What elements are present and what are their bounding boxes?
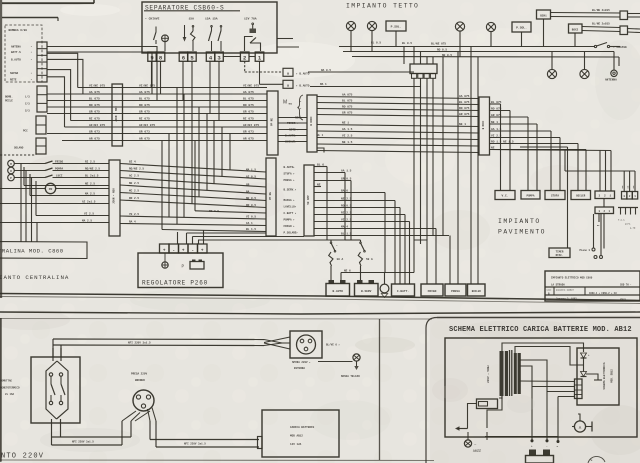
svg-text:RO/NE 2.5: RO/NE 2.5 (129, 166, 144, 170)
staircase extra vertical (168, 134, 170, 218)
svg-text:RI 075: RI 075 (243, 117, 254, 120)
arrow fuse 15A (184, 25, 186, 38)
cable up to presa socket (121, 421, 123, 445)
svg-text:POMPA: POMPA (526, 195, 534, 198)
svg-text:PP RE: PP RE (269, 192, 272, 200)
svg-text:VI 2.5: VI 2.5 (84, 212, 94, 215)
svg-text:50 AMP: 50 AMP (307, 195, 310, 205)
svg-text:RI 075: RI 075 (89, 117, 100, 120)
dashed box gas locker (5, 25, 42, 82)
cable breaker down (51, 419, 53, 441)
box REGOLATORE P260 (138, 253, 223, 288)
svg-text:RO 075: RO 075 (139, 104, 150, 107)
svg-text:BL 2x1.5: BL 2x1.5 (85, 174, 99, 177)
riser from terminal 4 (209, 61, 211, 114)
svg-text:JOUN • N50: JOUN • N50 (113, 188, 116, 204)
switch pompa (14, 170, 45, 172)
link terminals 3-2 (224, 56, 241, 58)
breaker poles (49, 373, 52, 376)
svg-text:RI 2.5: RI 2.5 (85, 160, 95, 163)
svg-text:B.SERV.▸: B.SERV.▸ (284, 189, 297, 192)
svg-text:FRIGO: FRIGO (55, 160, 63, 163)
long verticals to PRESA BOILER (449, 236, 451, 285)
meter symbol regolatore (162, 262, 168, 268)
svg-text:NE: NE (317, 183, 321, 186)
wire MA 1 from relay b (310, 86, 421, 88)
svg-text:GR 075: GR 075 (491, 114, 502, 117)
entry circle 220V (464, 440, 471, 447)
svg-text:15A 15A: 15A 15A (205, 18, 218, 21)
svg-text:V.C.: V.C. (502, 195, 509, 198)
wire terminal 1 to relay b (259, 61, 261, 84)
svg-text:RO 0.5: RO 0.5 (341, 204, 352, 207)
riser from terminal 9 (151, 61, 153, 88)
svg-text:BA: BA (246, 191, 250, 194)
svg-text:BL 1: BL 1 (317, 134, 324, 137)
terminal 2 (240, 52, 249, 61)
harness rows strip F to strip G (317, 97, 479, 99)
svg-text:P.SOL.: P.SOL. (391, 26, 402, 29)
meter symbol (162, 35, 169, 42)
svg-text:POMPA ▸: POMPA ▸ (284, 219, 296, 222)
riser from terminal 5 (191, 61, 193, 107)
input circle 1 (8, 160, 15, 167)
svg-text:RA 4: RA 4 (129, 220, 136, 223)
svg-text:BL 075: BL 075 (342, 99, 353, 102)
fuse 30A battery auto (329, 252, 333, 266)
relay coil 12V (250, 29, 257, 34)
svg-text:BL 6: BL 6 (317, 163, 324, 166)
svg-text:MA 2.5: MA 2.5 (85, 192, 95, 195)
arc bottom right (588, 456, 605, 463)
wire massa down (384, 193, 386, 273)
svg-text:PP NE: PP NE (271, 118, 274, 126)
svg-text:BI 4: BI 4 (129, 160, 136, 163)
wire row VI25 (36, 215, 109, 217)
plug right 2 (620, 26, 628, 35)
svg-text:PRESA 220V: PRESA 220V (131, 373, 148, 376)
svg-text:BOMB.: BOMB. (5, 96, 13, 99)
svg-text:AA 075: AA 075 (139, 91, 150, 94)
wire FRIGO left pin (414, 240, 427, 284)
svg-text:AR 075: AR 075 (89, 137, 100, 140)
svg-text:BL 075: BL 075 (139, 97, 150, 100)
fuse box charger (477, 399, 498, 409)
switch luci (14, 177, 45, 179)
svg-text:B ROOF: B ROOF (310, 116, 313, 126)
svg-text:RI 075: RI 075 (139, 117, 150, 120)
svg-text:• CHIAVE: • CHIAVE (145, 18, 160, 21)
pin box 3-2-1 right (595, 191, 615, 199)
drop to roof lamp 5 (551, 52, 553, 70)
svg-text:▸ B.AUTO: ▸ B.AUTO (296, 84, 310, 87)
box CENTRALINA MOD C860 (0, 242, 87, 259)
svg-text:BL 075: BL 075 (243, 97, 254, 100)
roof lamp 5 (547, 69, 556, 78)
key switch roof (594, 45, 596, 47)
wire row NE25 (24, 185, 109, 187)
svg-text:RO/NE 2.5: RO/NE 2.5 (85, 166, 100, 170)
svg-text:BL 075: BL 075 (89, 97, 100, 100)
chassis ground bottom (353, 354, 360, 361)
jog below strip F (317, 148, 324, 153)
svg-text:CENTRALINA MOD. C860: CENTRALINA MOD. C860 (0, 248, 64, 255)
svg-text:B.AUTO: B.AUTO (11, 59, 21, 62)
svg-text:▸ B.AUTO: ▸ B.AUTO (296, 72, 310, 75)
svg-text:NE 0.5: NE 0.5 (246, 197, 256, 200)
roof lamp 3 (455, 22, 464, 31)
hline regolatore to batteries (198, 239, 345, 241)
svg-text:AA 1.5: AA 1.5 (342, 128, 353, 131)
svg-text:NFI 220V 3x1.5: NFI 220V 3x1.5 (184, 443, 206, 446)
svg-text:NE 1: NE 1 (491, 121, 498, 124)
svg-text:LA STRADA: LA STRADA (551, 284, 565, 287)
wire RA 05 from relay a (308, 71, 414, 73)
riser from terminal 8 (160, 61, 162, 94)
svg-text:IMPIANTO: IMPIANTO (498, 218, 541, 225)
transformer secondary (514, 353, 517, 394)
box BOX2 roof (569, 24, 583, 33)
svg-text:Document Number: Document Number (556, 289, 575, 292)
svg-text:RO 075: RO 075 (342, 105, 353, 108)
svg-text:SPINA 220V ▸: SPINA 220V ▸ (292, 361, 311, 364)
breaker lens outline (46, 361, 57, 419)
svg-text:S/3: S/3 (25, 109, 30, 113)
relay contact loop (245, 37, 253, 52)
box SEPARATORE CSB60-S (142, 2, 277, 53)
svg-text:12V 70A: 12V 70A (244, 18, 257, 21)
svg-text:RO 2.5: RO 2.5 (129, 197, 139, 200)
svg-text:LAVELLO▸: LAVELLO▸ (284, 206, 297, 209)
svg-text:IMPIANTO 220V: IMPIANTO 220V (0, 453, 44, 461)
switch blade 3 (220, 27, 222, 31)
drop to roof lamp 6 (584, 52, 586, 70)
wire J1-2 (47, 52, 152, 94)
wire row AZ2x15 (0, 203, 109, 205)
wire pair BOX1 to plug (551, 12, 621, 15)
rows right of strip G to floor boxes (490, 103, 501, 105)
svg-text:NE 1: NE 1 (342, 121, 349, 124)
svg-text:PAVIMENTO: PAVIMENTO (498, 229, 546, 236)
svg-text:VI/NE 075: VI/NE 075 (243, 83, 259, 87)
svg-text:RO 0.5: RO 0.5 (209, 210, 219, 213)
svg-text:A.75: A.75 (630, 227, 636, 230)
svg-text:AZ 2x1.5: AZ 2x1.5 (82, 200, 96, 203)
rows right of strip E (314, 166, 327, 168)
svg-text:AZ 0.5: AZ 0.5 (246, 176, 256, 179)
svg-text:FRIGO ▸: FRIGO ▸ (284, 225, 296, 228)
svg-text:15A: 15A (189, 18, 195, 21)
comb connector far right (618, 207, 638, 209)
svg-text:AA 075: AA 075 (342, 93, 353, 96)
vertical to timer (567, 147, 569, 248)
wires below roof connector (413, 78, 415, 240)
terminal block separatore (148, 52, 156, 61)
svg-text:ANTENNA: ANTENNA (605, 79, 617, 82)
rows strip C to strip D sloped (120, 164, 266, 173)
diode D1 (581, 353, 587, 358)
svg-text:BOILER: BOILER (576, 195, 586, 198)
svg-text:BL/NE 2x035: BL/NE 2x035 (592, 8, 610, 12)
battery B.SERV (355, 284, 379, 297)
box BOILER mid (571, 191, 591, 200)
svg-text:IMPIANTO TETTO: IMPIANTO TETTO (346, 3, 419, 10)
svg-text:PCC: PCC (23, 130, 28, 133)
svg-text:IMPIANTO ELETTRICO MOD C860: IMPIANTO ELETTRICO MOD C860 (551, 276, 593, 279)
svg-text:RISC.: RISC. (556, 254, 564, 257)
svg-text:B.AUTO: B.AUTO (332, 290, 343, 293)
riser from terminal 3 (218, 61, 220, 121)
svg-text:RO 0.5: RO 0.5 (246, 204, 256, 207)
wire AA15 down (344, 173, 346, 241)
switch blade 4 (211, 27, 213, 31)
wire NE6 ground link (340, 273, 342, 281)
link terminals 2-1 (249, 56, 255, 58)
cable presa to charger (150, 439, 259, 441)
divider line 1 (0, 294, 640, 301)
plug right 1 (620, 11, 628, 20)
svg-text:RO 1.5 NE 1.5: RO 1.5 NE 1.5 (491, 140, 514, 143)
wires above roof connector (413, 47, 415, 65)
svg-text:GR 075: GR 075 (459, 113, 470, 116)
squares far right 321 (622, 192, 627, 200)
svg-text:GR 073: GR 073 (139, 130, 150, 133)
svg-text:AA 075: AA 075 (243, 91, 254, 94)
connector strip E (304, 165, 314, 236)
svg-text:STUFA: STUFA (551, 195, 559, 198)
wire row MA25 (30, 195, 109, 197)
svg-text:MA 1: MA 1 (320, 83, 327, 86)
svg-text:GR 073: GR 073 (243, 130, 254, 133)
connector column J2 (37, 86, 47, 112)
connector strip A (112, 84, 123, 146)
svg-text:MGNETOTERMICO: MGNETOTERMICO (0, 387, 20, 390)
svg-text:NFI 220V 3x1.5: NFI 220V 3x1.5 (128, 341, 151, 344)
fuse 50A battery serv (358, 252, 362, 266)
svg-text:BL 1.5: BL 1.5 (246, 228, 256, 231)
svg-text:RO 075: RO 075 (243, 104, 254, 107)
roof bus B (343, 51, 614, 53)
transformer core (509, 350, 511, 396)
wire transformer bottom to fuse (501, 396, 503, 399)
svg-text:VI 2.5: VI 2.5 (491, 134, 502, 137)
svg-text:STUFA ▸: STUFA ▸ (284, 173, 296, 176)
svg-text:a: a (287, 72, 289, 76)
svg-text:AA 075: AA 075 (459, 95, 470, 98)
svg-text:RA 0.5: RA 0.5 (321, 69, 331, 72)
svg-text:RETE: RETE (10, 79, 17, 82)
svg-text:RO 0.5: RO 0.5 (437, 49, 447, 52)
title block frame (545, 271, 640, 301)
divider line 2 (0, 312, 640, 314)
svg-text:2x 16A: 2x 16A (5, 393, 15, 396)
wires strip B to strip F (278, 117, 307, 119)
svg-text:BL/VE 6 ▸: BL/VE 6 ▸ (326, 343, 340, 347)
svg-text:POMPA: POMPA (55, 167, 63, 170)
strip D bottom row (162, 230, 266, 232)
battery icon regolatore (190, 262, 204, 270)
relay box a (283, 68, 293, 76)
svg-text:BRUNER: BRUNER (135, 379, 145, 382)
svg-text:RO 075: RO 075 (491, 107, 502, 110)
svg-text:MA 1.5: MA 1.5 (246, 169, 256, 172)
box TIMER RISC (549, 248, 570, 258)
connector PCC (36, 116, 46, 134)
svg-text:M: M (283, 100, 287, 106)
svg-text:BL 0.5: BL 0.5 (402, 42, 412, 45)
roof connector block (410, 64, 437, 74)
svg-text:VI 2.5: VI 2.5 (342, 134, 353, 137)
svg-text:NE 1.5: NE 1.5 (342, 141, 353, 144)
page corner mark top (2, 2, 94, 4)
connector strip C (109, 160, 120, 236)
svg-text:SOLANO: SOLANO (14, 147, 24, 150)
input circle 2 (8, 167, 15, 174)
connector strip F (307, 95, 317, 152)
svg-text:MA 2.5: MA 2.5 (82, 219, 92, 222)
svg-text:VI/NE 075: VI/NE 075 (89, 83, 105, 87)
svg-text:NE 1: NE 1 (459, 123, 466, 126)
svg-text:NE 2.5: NE 2.5 (341, 197, 352, 200)
wire B.AUTO feed (326, 167, 328, 241)
box STUFA mid (545, 191, 565, 200)
dashed wire bottom of gas box (0, 154, 36, 156)
roof P.SOL box 2 (512, 22, 531, 32)
svg-text:C860-1 + C860-2 + C8: C860-1 + C860-2 + C8 (589, 292, 617, 295)
svg-text:C.BATT ▸: C.BATT ▸ (284, 212, 297, 215)
svg-text:GR 073: GR 073 (89, 130, 100, 133)
svg-text:AC 2.5: AC 2.5 (129, 174, 139, 177)
box BOX1 roof (537, 10, 551, 19)
ammeter (574, 421, 585, 432)
svg-text:eo: eo (289, 103, 293, 106)
wire J1-6 (47, 77, 65, 127)
svg-text:50 A: 50 A (366, 258, 373, 261)
presa 220V socket circle (133, 390, 154, 411)
connector strip G (479, 97, 490, 155)
short row RO 05 (195, 211, 266, 213)
svg-text:MC 2.5: MC 2.5 (129, 189, 139, 192)
chassis ground symbol (380, 284, 389, 293)
terminal row regolatore (160, 244, 170, 253)
svg-text:PRESA: PRESA (451, 290, 460, 293)
hline above battery charger (485, 436, 558, 438)
staircase wires onto mid rows (229, 134, 231, 170)
antenna socket (611, 70, 617, 76)
harness rows left bundle (78, 87, 267, 89)
roof lamp 6 (580, 69, 589, 78)
svg-text:220V: 220V (472, 448, 481, 452)
svg-text:AA 1.5: AA 1.5 (491, 128, 502, 131)
photo edge bottom section (0, 318, 432, 321)
svg-text:GR 075: GR 075 (243, 110, 254, 113)
svg-text:NE 0.5: NE 0.5 (442, 54, 452, 57)
wires to C.BATT (394, 201, 396, 285)
cable top horizontal NFI 220V (53, 338, 264, 341)
box FRIGO floor (421, 284, 443, 296)
input circle 3 (8, 174, 15, 181)
svg-text:VI 0.5: VI 0.5 (246, 216, 256, 219)
svg-text:P.SOLARE▸: P.SOLARE▸ (284, 232, 299, 235)
svg-text:IMPIANTO CENTRALINA: IMPIANTO CENTRALINA (0, 274, 69, 281)
svg-text:Size: Size (547, 289, 553, 292)
wire to FRIGO right pin (435, 229, 437, 285)
cable fan to socket box (264, 340, 282, 344)
connector strip D (266, 158, 276, 236)
svg-text:BL 075: BL 075 (491, 101, 502, 104)
svg-text:COD 7H -: COD 7H - (620, 284, 632, 287)
divider line 1b (0, 297, 640, 304)
wires below pin box lower (598, 214, 600, 223)
box schema elettronica (577, 348, 619, 405)
left verticals down (20, 164, 22, 243)
svg-text:GR: GR (246, 184, 250, 187)
svg-text:PRESA ▸: PRESA ▸ (284, 179, 296, 182)
svg-text:BOX1: BOX1 (540, 14, 547, 17)
connection dots charger (531, 440, 533, 442)
drop to antenna (613, 52, 615, 71)
breaker cable entry (52, 348, 54, 361)
svg-text:JOUN • N50: JOUN • N50 (115, 106, 118, 122)
svg-text:NE 2.5: NE 2.5 (85, 182, 95, 185)
diode link wires (583, 358, 585, 372)
battery B.AUTO (326, 284, 350, 297)
wire row MA25b (0, 222, 109, 224)
svg-text:AR 075: AR 075 (243, 137, 254, 140)
switch frigo (14, 163, 45, 165)
svg-text:GR 075: GR 075 (342, 111, 353, 114)
svg-text:BOX2: BOX2 (572, 28, 579, 31)
roof lamp 1 (346, 21, 355, 30)
svg-text:BATT.S: BATT.S (11, 51, 21, 54)
relay box b (283, 80, 293, 88)
switch blade battery serv (360, 240, 362, 242)
wire fuse to entry (468, 404, 477, 429)
connector solar (36, 138, 46, 154)
stub wires separatore right (277, 38, 293, 40)
roof bus C (352, 56, 619, 59)
terminal 1 (255, 52, 264, 61)
wire J1-4 (47, 59, 83, 94)
svg-text:SEPAR: SEPAR (10, 72, 18, 75)
wire GR05 down (350, 181, 352, 241)
cable bottom horizontal 1 (52, 436, 132, 438)
switch blade battery auto (330, 240, 332, 242)
svg-text:CA 1: CA 1 (246, 222, 253, 225)
wires to pin box (599, 151, 601, 192)
motor PR (45, 183, 55, 193)
svg-text:NE 2.5: NE 2.5 (129, 182, 139, 185)
svg-text:AZ/BI 075: AZ/BI 075 (139, 123, 155, 127)
svg-text:SCHEMA ELETTRONICA: SCHEMA ELETTRONICA (603, 362, 606, 390)
page corner mark inner (2, 17, 58, 19)
svg-text:30 A: 30 A (337, 258, 344, 261)
svg-text:CARICA BATTERIE: CARICA BATTERIE (290, 426, 315, 429)
box POMPA mid (521, 191, 540, 200)
svg-text:PR: PR (49, 188, 53, 191)
wire BL/VE to chassis (318, 361, 353, 363)
svg-text:PEILE: PEILE (5, 100, 13, 103)
svg-text:TIMER: TIMER (556, 250, 564, 253)
wire J1-3 (47, 53, 78, 87)
svg-text:AZ/BI 075: AZ/BI 075 (243, 123, 259, 127)
wire pair BOX2 to plug (582, 27, 620, 28)
svg-text:P.C.S: P.C.S (618, 219, 625, 222)
svg-text:RI 2.5: RI 2.5 (341, 211, 352, 214)
switch blade chiave (155, 27, 157, 33)
svg-text:GR 075: GR 075 (139, 110, 150, 113)
transformer primary (500, 351, 504, 396)
